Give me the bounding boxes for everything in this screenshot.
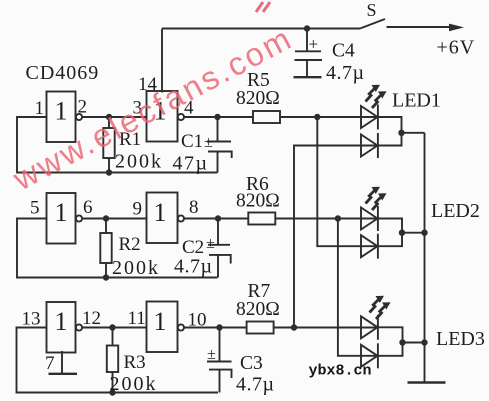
- svg-text:2: 2: [78, 97, 88, 118]
- wire: right cathode bus down to ground: [424, 133, 426, 383]
- wire: top power rail: [162, 28, 360, 30]
- watermark fragment top edge: [256, 2, 270, 12]
- inverter U1D box (pins 9-8): [147, 193, 178, 244]
- bubble output pin8: [178, 215, 184, 221]
- node: LED2 on bus: [421, 230, 427, 236]
- resistor R6 body: [248, 213, 275, 225]
- svg-text:200k: 200k: [115, 151, 163, 173]
- wire: stage1 input feedback left: [17, 117, 218, 173]
- node: R3 bottom: [109, 389, 115, 395]
- svg-text:4.7µ: 4.7µ: [174, 256, 213, 278]
- wire: pin12 to pin11: [82, 327, 146, 329]
- svg-text:±: ±: [207, 346, 216, 363]
- bubble output pin12: [76, 324, 82, 330]
- wire: pin6 to pin9: [82, 218, 146, 220]
- wire: feed R5 down to LED2 lower anode: [317, 117, 377, 246]
- svg-text:±: ±: [204, 134, 213, 151]
- wire: LED3 join to right bus: [403, 342, 425, 344]
- node: R2 top: [103, 215, 109, 221]
- node: R5 output junction: [314, 114, 320, 120]
- LED D2a triangle: [361, 208, 378, 230]
- svg-text:13: 13: [22, 309, 41, 330]
- svg-text:R3: R3: [124, 352, 146, 373]
- svg-text:11: 11: [128, 308, 146, 329]
- LED D1a triangle: [361, 106, 378, 128]
- svg-text:+: +: [309, 35, 319, 54]
- svg-text:LED1: LED1: [392, 90, 441, 112]
- inverter U1B box (pins 3-4): [147, 91, 178, 142]
- capacitor C2 top plate: [208, 244, 230, 246]
- svg-text:5: 5: [30, 198, 40, 219]
- wire: stage2 input feedback left: [17, 219, 218, 278]
- node: C1 top: [214, 114, 220, 120]
- svg-text:C4: C4: [332, 41, 355, 62]
- svg-text:820Ω: 820Ω: [236, 88, 280, 109]
- svg-text:4.7µ: 4.7µ: [326, 62, 365, 84]
- light arrows LED3: [370, 300, 386, 320]
- ground bar bottom right: [408, 381, 446, 384]
- capacitor C4 top plate: [295, 50, 321, 52]
- LED D2b cathode bar: [377, 234, 379, 259]
- LED D1b triangle: [361, 135, 378, 157]
- svg-text:C1: C1: [181, 131, 203, 152]
- wire: switch to +6V: [387, 26, 453, 28]
- svg-text:±: ±: [206, 235, 215, 252]
- node: C2 top: [215, 215, 221, 221]
- node: R3 top: [109, 324, 115, 330]
- svg-text:LED3: LED3: [436, 328, 485, 350]
- capacitor C1 lead top: [217, 117, 219, 142]
- resistor R1 body: [103, 128, 114, 158]
- resistor R5 body: [253, 111, 280, 123]
- svg-text:1: 1: [35, 98, 45, 119]
- svg-text:200k: 200k: [110, 373, 158, 395]
- node: C3 top: [216, 324, 222, 330]
- capacitor C1 bottom plate with hook: [208, 152, 232, 159]
- wire: R7 to LED3 anode: [274, 327, 378, 329]
- node: R1 bottom: [106, 169, 112, 175]
- wire: stage3 input feedback left: [17, 328, 219, 393]
- LED D3b triangle: [361, 345, 378, 367]
- capacitor C4 bottom plate: [295, 59, 323, 61]
- inverter U1F box (pins 11-10): [147, 302, 178, 353]
- resistor R7 body: [247, 322, 274, 334]
- wire: D2b cathode up to join: [378, 233, 402, 247]
- svg-text:200k: 200k: [112, 257, 160, 279]
- bubble output pin6: [76, 215, 82, 221]
- inverter U1A box (pins 1-2): [47, 92, 76, 143]
- bubble output pin10: [178, 324, 184, 330]
- svg-text:820Ω: 820Ω: [236, 191, 280, 212]
- ground stem pin7: [61, 351, 63, 374]
- svg-text:1: 1: [154, 307, 167, 336]
- ground bar pin7: [49, 373, 78, 375]
- LED D1a cathode bar: [377, 105, 379, 130]
- svg-text:6: 6: [83, 197, 93, 218]
- wire: VDD lead from pin14 up to rail: [161, 29, 163, 93]
- capacitor C2 lead top: [217, 219, 219, 245]
- capacitor C3 top plate: [207, 361, 232, 363]
- wire: D3a cathode down to join: [378, 327, 403, 342]
- svg-text:1: 1: [154, 198, 167, 227]
- node: LED2 cathode join: [399, 230, 405, 236]
- svg-text:8: 8: [189, 197, 199, 218]
- capacitor C3 bottom plate with hook: [209, 370, 232, 378]
- capacitor C2 bottom plate with hook: [209, 255, 231, 264]
- svg-text:C3: C3: [240, 353, 263, 374]
- node: R6 output junction: [335, 215, 341, 221]
- resistor R3 lead bottom: [112, 372, 114, 393]
- capacitor C1 top plate: [207, 141, 231, 143]
- svg-text:10: 10: [188, 310, 207, 331]
- svg-text:S: S: [367, 0, 377, 20]
- svg-text:1: 1: [55, 307, 68, 336]
- arrowhead +6V: [449, 24, 464, 32]
- resistor R1 lead top: [108, 117, 110, 128]
- resistor R2 lead bottom: [105, 263, 107, 278]
- capacitor C1 lead bottom: [217, 152, 219, 173]
- switch S blade: [360, 19, 385, 29]
- node: R2 bottom: [103, 274, 109, 280]
- svg-text:1: 1: [55, 97, 68, 126]
- LED D3a cathode bar: [377, 315, 379, 340]
- node: rail to C4 junction: [304, 25, 310, 31]
- resistor R3 body: [107, 346, 118, 373]
- svg-text:+6V: +6V: [437, 37, 476, 59]
- node: LED1 cathode join: [398, 130, 404, 136]
- LED D2b triangle: [361, 235, 378, 257]
- svg-text:CD4069: CD4069: [26, 62, 100, 84]
- LED D1b cathode bar: [377, 133, 379, 158]
- node: LED3 on bus: [421, 339, 427, 345]
- capacitor C2 lead bottom: [217, 255, 219, 278]
- svg-text:9: 9: [133, 199, 143, 220]
- resistor R2 lead top: [105, 219, 107, 234]
- light arrows LED1: [366, 89, 382, 109]
- capacitor C4 lead top: [306, 29, 308, 52]
- resistor R1 lead bottom: [108, 158, 110, 173]
- wire: R6 to LED2 anode: [275, 218, 377, 220]
- resistor R2 body: [100, 233, 111, 263]
- LED D3b cathode bar: [377, 343, 379, 368]
- capacitor C3 lead top: [219, 328, 221, 362]
- node: R7 output junction: [291, 324, 297, 330]
- inverter U1E box (pins 13-12): [47, 302, 76, 353]
- resistor R3 lead top: [112, 328, 114, 346]
- wire: pin10 output row to R7: [184, 327, 247, 329]
- wire: feed R6 down to LED3 lower anode: [338, 219, 378, 356]
- svg-text:47µ: 47µ: [173, 153, 209, 175]
- svg-text:820Ω: 820Ω: [236, 299, 280, 320]
- capacitor C4 lead bottom: [306, 60, 308, 77]
- svg-text:4.7µ: 4.7µ: [236, 374, 275, 396]
- wire: pin8 output row to R6: [184, 218, 248, 220]
- bubble output pin2: [76, 114, 82, 120]
- node: R1 top: [106, 114, 112, 120]
- node: LED3 cathode join: [399, 339, 405, 345]
- svg-text:LED2: LED2: [431, 200, 480, 222]
- wire: pin4 output row to R5: [184, 116, 253, 118]
- wire: D1b cathode up to join: [378, 133, 402, 146]
- wire: LED1 join to right bus: [402, 132, 425, 134]
- light arrows LED2: [366, 191, 382, 211]
- capacitor C3 lead bottom: [219, 370, 221, 393]
- LED D2a cathode bar: [377, 206, 379, 231]
- svg-text:1: 1: [55, 198, 68, 227]
- wire: R5 to LED1 anode: [280, 116, 378, 118]
- wire: D2a cathode down to join: [378, 219, 402, 233]
- svg-text:R2: R2: [119, 234, 141, 255]
- wire: D3b cathode up to join: [378, 343, 403, 356]
- LED D3a triangle: [361, 316, 378, 338]
- svg-text:ybx8.cn: ybx8.cn: [309, 363, 372, 380]
- wire: feed R7 up to LED1 lower anode: [294, 146, 378, 328]
- wire: pin2 to pin3: [82, 116, 146, 118]
- ground bar under C4: [294, 76, 322, 78]
- inverter U1C box (pins 5-6): [47, 193, 76, 244]
- wire: D1a cathode down to join: [378, 117, 402, 133]
- svg-text:12: 12: [82, 308, 101, 329]
- wire: LED2 join to right bus: [402, 232, 425, 234]
- svg-text:7: 7: [45, 353, 55, 374]
- bubble output pin4: [178, 114, 184, 120]
